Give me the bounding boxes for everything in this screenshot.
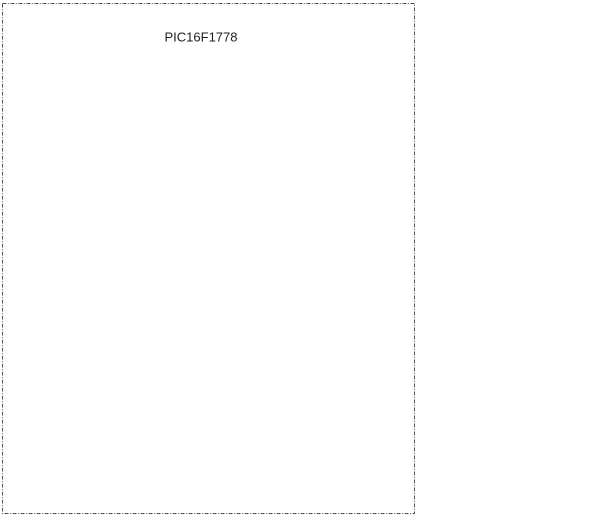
svg-text:PIC16F1778: PIC16F1778 (165, 30, 238, 45)
label PIC16F1778 (165, 30, 238, 45)
PIC16F1778 chip boundary (3, 4, 415, 514)
